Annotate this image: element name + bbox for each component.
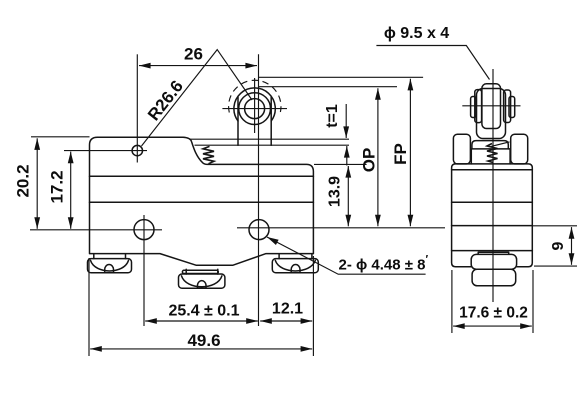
right mounting hole — [249, 220, 269, 240]
side roller bracket tabs — [471, 90, 515, 123]
svg-text:R26.6: R26.6 — [144, 77, 187, 124]
FP extension line — [259, 76, 424, 78]
body seam line 2 — [90, 201, 314, 203]
side body seam 2 — [452, 201, 533, 203]
dimension 25.4 — [145, 303, 258, 322]
dimension 26 — [139, 45, 257, 66]
OP extension line — [259, 86, 398, 88]
dashed circle free position — [229, 80, 281, 112]
right terminal screw — [272, 254, 318, 273]
side roller axle line — [462, 105, 520, 107]
svg-text:20.2: 20.2 — [14, 164, 33, 197]
dimension 9 — [532, 226, 577, 266]
left hole horizontal centerline / datum — [30, 229, 162, 231]
left mounting hole — [134, 220, 154, 240]
svg-text:FP: FP — [391, 143, 410, 165]
roller bracket left arm — [237, 97, 239, 145]
svg-text:25.4 ± 0.1: 25.4 ± 0.1 — [168, 303, 239, 320]
side view centerline — [492, 69, 494, 302]
roller horizontal centerline — [222, 108, 287, 110]
plunger bump 2 — [472, 269, 516, 286]
pivot hole horizontal centerline / 17.2 extension — [64, 150, 147, 152]
side lever band lower — [471, 149, 510, 164]
lever second line — [195, 144, 350, 146]
pivot hole top-left — [132, 145, 142, 155]
leader 2-phi4.48 — [267, 237, 429, 274]
front view switch body outline — [90, 137, 314, 265]
left mounting hole vertical centerline — [143, 215, 145, 326]
lever top line — [190, 138, 349, 140]
roller outer arc — [234, 88, 275, 121]
side body seam 1 — [452, 169, 533, 171]
middle terminal screw — [179, 269, 225, 288]
svg-text:17.6 ± 0.2: 17.6 ± 0.2 — [459, 305, 528, 322]
svg-text:13.9: 13.9 — [327, 176, 344, 207]
dimension 17.2 — [48, 152, 71, 229]
svg-text:OP: OP — [359, 148, 378, 173]
leader phi9.5x4 — [376, 25, 489, 79]
long extension line through roller and right hole — [258, 54, 260, 326]
svg-text:t=1: t=1 — [324, 104, 341, 128]
side body seam 4 — [452, 250, 533, 252]
roller vertical centerline — [254, 78, 256, 133]
plunger bump 1 — [471, 254, 516, 269]
left terminal screw — [88, 254, 132, 273]
leader R26.6 — [142, 50, 253, 146]
side body seam 3 — [452, 225, 533, 227]
roller bracket right arm — [270, 97, 272, 145]
dimension FP — [391, 79, 411, 227]
roller inner circle — [245, 99, 265, 119]
roller middle circle — [239, 93, 271, 125]
side ear left — [453, 134, 470, 164]
dimension OP — [359, 88, 378, 226]
dimension 17.6 — [452, 270, 533, 333]
side lever band upper — [472, 141, 508, 149]
svg-text:26: 26 — [184, 45, 203, 64]
side lever diagonal edge — [491, 142, 510, 147]
dimension 20.2 — [14, 137, 90, 229]
dimension t=1 — [324, 104, 347, 166]
dimension 12.1 — [260, 301, 312, 322]
svg-text:9: 9 — [550, 241, 567, 250]
side body outline — [452, 164, 533, 267]
side ear right — [511, 134, 528, 164]
pivot hole vertical centerline — [136, 54, 138, 162]
svg-text:2- ϕ 4.48 ± 8′: 2- ϕ 4.48 ± 8′ — [339, 254, 429, 274]
plunger step — [478, 252, 509, 254]
lever bottom extension line — [314, 163, 367, 165]
datum reference line right — [237, 227, 445, 229]
svg-text:17.2: 17.2 — [48, 170, 67, 203]
dimension 49.6 — [89, 256, 313, 356]
side roller outer — [477, 89, 506, 139]
svg-text:12.1: 12.1 — [272, 301, 303, 318]
body seam line 1 — [90, 175, 314, 177]
svg-text:ϕ 9.5 x 4: ϕ 9.5 x 4 — [384, 25, 449, 42]
spring front view — [203, 146, 214, 163]
svg-text:49.6: 49.6 — [187, 331, 220, 350]
dimension 13.9 — [327, 166, 349, 226]
side spring — [487, 144, 498, 163]
side roller inner — [482, 84, 501, 129]
